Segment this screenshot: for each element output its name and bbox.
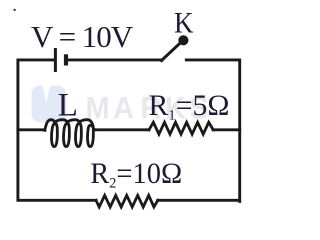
- svg-text:L: L: [58, 87, 78, 123]
- svg-text:R2=10Ω: R2=10Ω: [90, 157, 182, 191]
- svg-text:R1=5Ω: R1=5Ω: [149, 89, 230, 124]
- svg-text:K: K: [174, 7, 194, 40]
- svg-text:MA: MA: [86, 90, 138, 126]
- svg-text:V = 10V: V = 10V: [31, 19, 134, 54]
